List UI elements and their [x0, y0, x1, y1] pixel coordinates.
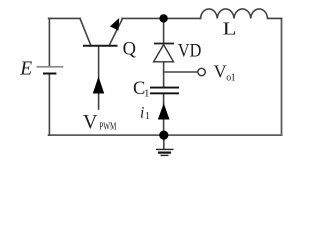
svg-text:1: 1 [144, 88, 150, 100]
svg-text:VD: VD [178, 40, 201, 61]
svg-text:E: E [19, 58, 32, 79]
svg-text:V: V [83, 111, 98, 133]
svg-text:PWM: PWM [99, 120, 116, 131]
svg-text:L: L [223, 20, 237, 39]
svg-text:i: i [140, 105, 144, 122]
svg-text:V: V [214, 62, 227, 82]
svg-text:1: 1 [145, 111, 150, 122]
svg-text:Q: Q [123, 40, 137, 60]
svg-text:o1: o1 [226, 72, 235, 83]
